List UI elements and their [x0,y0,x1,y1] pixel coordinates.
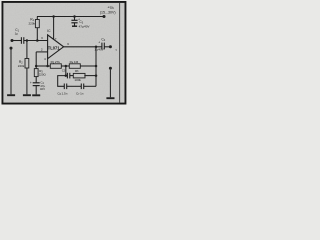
node output ground terminal [109,67,112,70]
capacitor C3 [74,17,76,21]
op-amp IC TL071 [48,35,64,59]
wire output feedback column [95,47,97,87]
svg-text:+Ub: +Ub [107,4,114,10]
svg-text:+: + [30,81,32,85]
resistor R3 [35,66,37,69]
svg-text:+: + [78,17,80,21]
wire row B left leg [58,76,66,87]
node output terminal [109,45,112,48]
resistor R1 [36,17,38,20]
inner frame right edge line [119,3,121,103]
capacitor C2 [33,82,40,84]
resistor R5 [50,64,61,69]
svg-text:47µ/40V: 47µ/40V [79,25,90,29]
ground R2 [23,94,31,96]
svg-text:IC: IC [47,29,51,33]
node output junction [95,46,98,49]
svg-text:2: 2 [41,47,43,51]
svg-text:3: 3 [41,36,43,40]
ground C3 [72,25,77,27]
wire pin 2 [36,51,47,53]
resistor R6 [73,73,85,78]
resistor R2 [26,41,28,59]
wire pin 7 [53,17,55,40]
svg-text:100k: 100k [74,78,81,82]
wire pin 4 [47,59,49,66]
capacitor C4 [96,46,102,48]
wire junction to row B [65,66,67,76]
svg-text:7: 7 [55,37,57,41]
svg-text:+: + [98,41,100,45]
node input ground terminal [10,47,13,50]
wire feedback row [36,65,50,67]
svg-text:R41M: R41M [70,60,79,64]
svg-text:220k: 220k [29,22,36,26]
node C3 rail junction [73,15,76,18]
schematic background panel [0,0,130,106]
node input terminal [11,39,14,42]
svg-text:220Ω: 220Ω [39,72,47,76]
svg-text:1µ: 1µ [15,32,19,36]
svg-text:C4: C4 [101,38,105,43]
svg-text:R527k: R527k [51,60,61,64]
node +Ub terminal [103,15,106,18]
wire C1 to pin 3 [24,40,48,42]
capacitor C6 [63,84,65,90]
svg-text:C61,5n: C61,5n [57,91,67,95]
node R2 junction [26,39,29,42]
capacitor C5 [66,75,68,77]
node pin7 rail junction [52,15,55,18]
svg-text:4: 4 [44,57,46,61]
svg-text:TL071: TL071 [48,46,61,51]
wire top supply rail [37,16,104,18]
svg-text:220k: 220k [18,64,25,68]
svg-text:6: 6 [67,42,69,46]
wire pin 6 output [64,46,96,48]
ground C2 [32,94,40,96]
capacitor C7 [80,84,82,90]
resistor R4 [69,64,80,69]
capacitor C1 [20,37,22,44]
svg-text:C71n: C71n [76,91,84,95]
svg-text:40V: 40V [40,87,45,91]
text labels [15,4,118,96]
ground output [106,97,114,99]
svg-text:1µ/40V: 1µ/40V [94,47,103,51]
wire output ground [109,70,111,98]
wire input to C1 [13,40,21,42]
wire input ground [10,50,12,95]
ground input [7,94,15,96]
svg-text:(15...30V): (15...30V) [100,11,116,15]
node R1 junction [36,39,39,42]
